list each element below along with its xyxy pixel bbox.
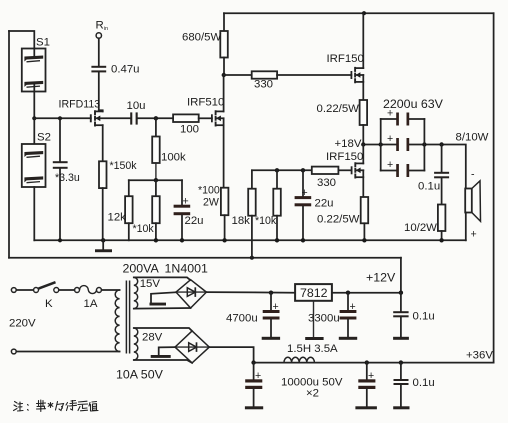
svg-text:+: +: [471, 229, 477, 241]
wire input node to gate: [34, 117, 91, 119]
wire right border: [493, 13, 495, 362]
transformer core: [126, 281, 129, 354]
svg-text:S2: S2: [37, 132, 51, 144]
wire S1 bottom to node: [33, 85, 35, 119]
transistor Q2 IRF510: [212, 110, 224, 126]
wire S2 bottom to rail A: [33, 187, 35, 240]
svg-text:+: +: [273, 301, 279, 313]
wire rail B drop to +12V: [400, 258, 402, 293]
svg-text:0.1u: 0.1u: [413, 377, 435, 389]
fuse 1A: [75, 286, 102, 294]
node 2W rail A: [222, 238, 226, 242]
connector S2: [22, 144, 46, 187]
wire top supply rail: [224, 12, 494, 14]
svg-text:18k: 18k: [232, 215, 251, 227]
svg-text:S1: S1: [36, 37, 50, 49]
node 10-2W rail A: [439, 238, 443, 242]
wire +36V rail: [254, 362, 494, 364]
wire 330 to IRF150 gate: [277, 74, 351, 76]
capacitor C 0.1u 36V: [393, 363, 409, 410]
svg-text:*150k: *150k: [110, 160, 138, 172]
node 100k bottom: [154, 178, 158, 182]
capacitor C 22u right: [295, 170, 312, 240]
svg-text:100: 100: [180, 124, 199, 136]
svg-text:+18V: +18V: [335, 138, 362, 150]
resistor R 10/2W: [438, 205, 446, 232]
wire input top loop: [9, 31, 34, 49]
svg-text:×2: ×2: [306, 388, 319, 400]
svg-text:330: 330: [317, 177, 336, 189]
capacitor C 3300u: [339, 293, 357, 340]
svg-text:7812: 7812: [300, 286, 328, 300]
svg-text:IRF510: IRF510: [187, 97, 224, 109]
resistor R 330 upper: [252, 71, 277, 78]
capacitor C 22u left: [174, 180, 191, 240]
transformer secondary 28V: [134, 328, 138, 360]
wire left input return border: [8, 31, 10, 258]
resistor R 0.22/5W lower: [361, 197, 369, 223]
wire IRF150 drain to top rail: [362, 13, 364, 68]
resistor R 0.22/5W upper: [360, 100, 368, 125]
wire bridge2 out: [209, 347, 253, 363]
wire ground rail B: [9, 257, 401, 259]
switch K: [34, 282, 59, 292]
svg-text:+36V: +36V: [466, 350, 493, 362]
node 10000u 1: [251, 360, 255, 364]
terminal 220V neutral: [11, 349, 16, 354]
wire IRF150 source to 0.22: [362, 75, 364, 100]
rectifier bridge 2: [175, 331, 209, 363]
svg-text:*10k: *10k: [133, 223, 155, 235]
capacitor C 0.1u 12V: [393, 293, 409, 340]
node 22u rail A: [180, 238, 184, 242]
node input junction: [32, 116, 36, 120]
svg-text:330: 330: [254, 79, 273, 91]
ground bridge 1: [150, 292, 177, 305]
wire 28V top to bridge: [134, 328, 192, 331]
note chinese annotation: [14, 400, 99, 412]
node +18V b: [379, 142, 383, 146]
svg-text:0.1u: 0.1u: [418, 181, 440, 193]
capacitor C 4700u: [262, 293, 280, 340]
capacitor C 10u: [130, 112, 173, 124]
svg-text:-: -: [471, 169, 475, 181]
node 18k to rail B: [250, 256, 254, 260]
regulator U 7812: [295, 284, 332, 301]
ground 7812: [305, 301, 323, 340]
wire IRF510 source down: [223, 118, 225, 187]
wire 0.22 lower to rail A: [363, 223, 365, 240]
wire +18V output node: [363, 144, 396, 146]
resistor R *10k right: [273, 170, 281, 240]
svg-text:3300u: 3300u: [308, 313, 340, 325]
node 10k right rail A: [275, 238, 279, 242]
connector S1: [22, 49, 46, 92]
ground bridge 2: [151, 347, 175, 358]
svg-text:12k: 12k: [108, 212, 127, 224]
svg-text:+: +: [368, 370, 374, 382]
svg-text:1A: 1A: [84, 298, 98, 310]
node 3.3u tap: [58, 116, 62, 120]
wire 15V bottom to bridge: [134, 307, 191, 310]
capacitor C 0.47u: [91, 66, 106, 112]
svg-text:10/2W: 10/2W: [404, 222, 437, 234]
svg-text:0.1u: 0.1u: [413, 311, 435, 323]
capacitor C 0.1u amp: [434, 145, 449, 205]
resistor R 330 lower: [312, 167, 339, 174]
node 0.1u 36V: [399, 360, 403, 364]
wire input node to S2: [33, 118, 35, 144]
wire 28V bottom to bridge: [134, 360, 192, 363]
svg-text:*10k: *10k: [255, 215, 277, 227]
node driver drain: [222, 73, 226, 77]
node top rail junction: [362, 11, 366, 15]
svg-text:200VA: 200VA: [123, 262, 160, 276]
node 3.3u to rail A: [58, 238, 62, 242]
svg-text:+: +: [387, 133, 393, 145]
wire 330 to Q4 gate: [338, 169, 351, 171]
capacitor C 10000u 2: [355, 363, 377, 410]
node 4700u tap: [269, 291, 273, 295]
svg-text:220V: 220V: [9, 318, 36, 330]
wire IRF510 drain up: [223, 75, 225, 111]
transistor Q4 IRF150 lower: [352, 162, 364, 178]
resistor R 100k: [152, 118, 160, 180]
svg-text:IRF150: IRF150: [326, 151, 363, 163]
node +12V end: [399, 291, 403, 295]
rectifier bridge 1: [176, 280, 206, 308]
wire node to 330: [224, 74, 252, 76]
transformer secondary 15V: [134, 277, 138, 308]
svg-text:IRF150: IRF150: [327, 53, 364, 65]
svg-text:8/10W: 8/10W: [456, 132, 489, 144]
svg-text:+: +: [183, 196, 189, 208]
svg-text:+: +: [387, 159, 393, 171]
wire Q4 source down: [362, 170, 364, 197]
node 3300u tap: [346, 291, 350, 295]
svg-text:15V: 15V: [140, 278, 161, 290]
svg-text:+: +: [255, 370, 261, 382]
terminal 220V live: [11, 288, 16, 293]
capacitor C 3.3u: [53, 118, 68, 240]
svg-text:680/5W: 680/5W: [182, 32, 222, 44]
speaker LS: [465, 181, 480, 241]
wire live to switch: [17, 289, 34, 291]
wire switch to fuse: [59, 289, 75, 291]
transistor Q1 IRFD113: [91, 110, 131, 126]
node 100k tap: [154, 116, 158, 120]
svg-text:+: +: [302, 187, 308, 199]
svg-text:+12V: +12V: [366, 271, 396, 285]
wire fuse to primary: [102, 289, 120, 291]
wire 10-2W to rail A: [441, 231, 443, 240]
wire S1 top pin: [33, 49, 35, 57]
node 150k rail A: [101, 238, 105, 242]
svg-text:1N4001: 1N4001: [165, 262, 209, 276]
svg-text:0.22/5W: 0.22/5W: [317, 103, 360, 115]
svg-text:+: +: [350, 301, 356, 313]
svg-text:IRFD113: IRFD113: [59, 98, 101, 110]
node +18V c: [422, 142, 426, 146]
svg-text:10u: 10u: [127, 100, 146, 112]
resistor R *10k left: [152, 180, 160, 240]
node +18V d: [439, 142, 443, 146]
wire rail A (amp 0V): [34, 239, 466, 241]
svg-text:28V: 28V: [142, 332, 163, 344]
svg-text:+: +: [387, 108, 393, 120]
wire 7812 out: [332, 292, 401, 294]
svg-text:2W: 2W: [203, 197, 219, 209]
resistor R 12k: [125, 180, 133, 240]
wire 150k to rail A: [102, 188, 104, 240]
resistor R 18k: [248, 170, 256, 257]
svg-text:*100: *100: [198, 185, 220, 197]
transformer primary coil: [115, 290, 119, 352]
resistor R 680/5W: [220, 13, 228, 75]
svg-text:22u: 22u: [315, 198, 334, 210]
terminal Rin input: [96, 33, 101, 38]
svg-text:1.5H 3.5A: 1.5H 3.5A: [287, 343, 338, 355]
wire neutral to primary: [17, 351, 120, 353]
wire IRFD113 source to 150k: [102, 125, 104, 161]
inductor L 1.5H: [284, 357, 314, 362]
node 22u right top: [301, 168, 305, 172]
svg-text:0.22/5W: 0.22/5W: [317, 214, 360, 226]
wire divider node: [252, 169, 312, 171]
wire feedback node: [129, 179, 182, 181]
svg-text:10A 50V: 10A 50V: [116, 368, 164, 382]
wire Rin to 0.47u: [98, 38, 100, 66]
node 0.22 rail A: [362, 238, 366, 242]
ground amp: [95, 240, 112, 252]
capacitor C 10000u 1: [245, 363, 263, 410]
transistor Q3 IRF150 upper: [351, 67, 363, 83]
wire bridge1 out: [206, 291, 295, 294]
node 10000u 2: [365, 360, 369, 364]
wire 15V top to bridge: [134, 277, 191, 280]
node 10k rail A: [154, 238, 158, 242]
node 22u right rail A: [301, 238, 305, 242]
svg-text:100k: 100k: [161, 152, 186, 164]
node 10k right top: [275, 168, 279, 172]
wire 0.22 to +18V node: [362, 125, 364, 145]
wire 100-2W to rail A: [224, 215, 226, 240]
resistor R 100: [173, 114, 199, 122]
wire Q4 drain to +18V: [362, 145, 364, 164]
node +18V a: [361, 142, 365, 146]
capacitor bank C 2200u x3: [381, 113, 425, 178]
svg-text:0.47u: 0.47u: [111, 64, 140, 76]
svg-text:22u: 22u: [185, 215, 204, 227]
resistor R *100 2W: [221, 188, 229, 216]
resistor R *150k: [99, 161, 107, 188]
svg-text:4700u: 4700u: [226, 313, 258, 325]
wire 100 to gate: [199, 117, 212, 119]
svg-text:*3.3u: *3.3u: [55, 172, 80, 184]
svg-text:K: K: [45, 298, 53, 310]
